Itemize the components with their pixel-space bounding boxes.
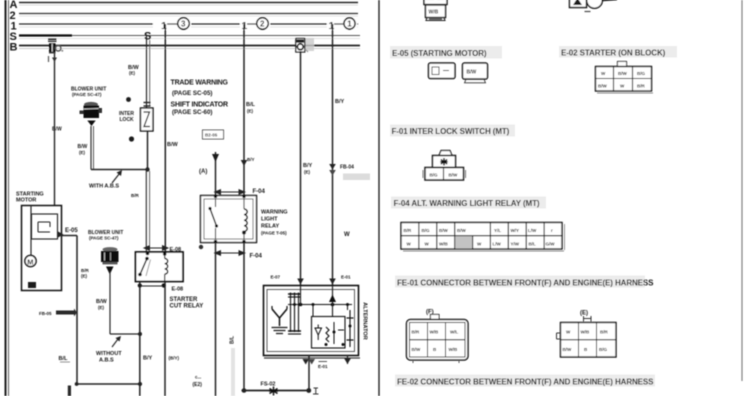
svg-text:B/Y: B/Y — [303, 163, 313, 169]
svg-text:E-08: E-08 — [172, 287, 184, 293]
connector pinout E-02 table — [596, 62, 654, 94]
svg-text:(E): (E) — [79, 150, 86, 155]
svg-text:1: 1 — [329, 20, 335, 32]
svg-text:W/B: W/B — [429, 10, 439, 16]
connector arrows below alternator — [303, 359, 329, 369]
svg-text:(PAGE T-05): (PAGE T-05) — [261, 231, 287, 236]
relay K2 warning light relay box — [201, 196, 257, 243]
wire S drop to interlock — [147, 36, 150, 108]
node junction S/blower — [145, 167, 149, 171]
svg-text:RELAY: RELAY — [261, 224, 279, 230]
svg-text:B: B — [10, 42, 18, 54]
connector pinout F side — [407, 310, 469, 364]
svg-text:(E): (E) — [304, 170, 311, 175]
svg-text:F-04: F-04 — [250, 254, 263, 260]
svg-text:B/Y: B/Y — [247, 157, 255, 162]
ground splice symbol — [269, 387, 278, 396]
svg-text:MOTOR: MOTOR — [16, 198, 36, 204]
starter cut relay name — [170, 297, 204, 310]
svg-text:A.B.S: A.B.S — [99, 358, 114, 364]
svg-text:S: S — [144, 31, 151, 43]
svg-text:FS-02: FS-02 — [261, 382, 276, 388]
connector arrows on wire 332 — [329, 164, 336, 176]
svg-text:WITHOUT: WITHOUT — [96, 351, 122, 357]
label B/L on 1-2 wire — [246, 102, 256, 114]
wire circled-B drop to alternator — [300, 51, 302, 286]
interlock top marks — [144, 103, 151, 107]
blower unit connector (upper) — [80, 102, 103, 126]
label B/W (E) lower — [96, 299, 108, 310]
connector pinout E-05 a — [429, 63, 456, 79]
wire horizontal ABS link y384 — [75, 382, 142, 386]
svg-text:(E): (E) — [580, 311, 588, 317]
page center divider — [378, 0, 380, 396]
starter motor pictorial figure — [570, 0, 618, 12]
svg-text:Y/L: Y/L — [494, 228, 501, 233]
connector FB-05 arrow — [39, 309, 77, 317]
interlock side dots — [126, 97, 134, 141]
svg-text:W: W — [344, 232, 350, 238]
svg-text:F-04: F-04 — [253, 189, 266, 195]
svg-text:F-04 ALT. WARNING LIGHT RELAY: F-04 ALT. WARNING LIGHT RELAY (MT) — [394, 199, 540, 208]
heading E-05 starting motor — [390, 46, 502, 59]
alternator internal bus — [288, 303, 352, 307]
blower unit label (lower) — [88, 230, 123, 241]
connector view E-05 top figure — [424, 0, 447, 21]
off-page stub — [68, 386, 71, 396]
heading FE-01 connector between harness — [395, 276, 654, 288]
svg-text:B/G: B/G — [599, 347, 608, 352]
label (E2) — [193, 375, 203, 389]
alternator right components — [313, 305, 354, 348]
svg-text:B2-05: B2-05 — [205, 133, 218, 138]
relay K1 starter cut relay box — [136, 252, 184, 282]
svg-text:B/R: B/R — [131, 193, 140, 198]
svg-text:SHIFT INDICATOR: SHIFT INDICATOR — [171, 102, 229, 109]
starting motor box E-05 — [22, 206, 62, 291]
svg-text:(PAGE SC-60): (PAGE SC-60) — [172, 109, 212, 116]
alternator box — [264, 286, 359, 356]
svg-text:B/G: B/G — [430, 173, 439, 178]
connector label E-07 alternator left — [271, 275, 304, 285]
svg-text:B/W: B/W — [467, 70, 477, 76]
interlock switch F-01 body — [141, 108, 154, 131]
bus wire A — [19, 3, 358, 6]
svg-text:F-01 INTER LOCK SWITCH (MT): F-01 INTER LOCK SWITCH (MT) — [392, 127, 510, 136]
svg-text:WARNING: WARNING — [261, 210, 288, 216]
wire F-04 left pin down to bottom — [215, 243, 217, 396]
F-04 pin dots — [214, 195, 246, 243]
svg-text:(PAGE SC-47): (PAGE SC-47) — [72, 92, 102, 97]
connector pinout E-05 b — [463, 63, 488, 83]
label B/Y (E) near wire 300 — [303, 163, 313, 175]
svg-text:(E): (E) — [129, 71, 136, 76]
F-04 connector arrows bottom — [199, 245, 246, 256]
wire relay bottom-left down — [139, 282, 141, 396]
wire 1-1 drop to alternator — [332, 24, 334, 286]
svg-text:E-05: E-05 — [65, 228, 78, 234]
node 1-2 junction label — [240, 18, 270, 32]
connector E-05 label — [58, 228, 78, 238]
svg-text:B/L: B/L — [529, 242, 537, 247]
wire horizontal junction — [91, 169, 148, 171]
connector pinout E side — [557, 311, 617, 358]
interlock label — [119, 111, 134, 123]
alternator regulator box — [312, 317, 346, 349]
svg-text:FB-05: FB-05 — [39, 311, 52, 316]
svg-text:B/R: B/R — [412, 330, 421, 335]
scan streak — [231, 348, 235, 396]
svg-text:FE-01 CONNECTOR BETWEEN FRONT(: FE-01 CONNECTOR BETWEEN FRONT(F) AND ENG… — [397, 279, 654, 288]
svg-text:B/W: B/W — [439, 228, 449, 233]
svg-text:E-02 STARTER (ON BLOCK): E-02 STARTER (ON BLOCK) — [561, 49, 666, 58]
svg-text:TRADE WARNING: TRADE WARNING — [171, 80, 229, 87]
label B/Y on wire 244 lower — [241, 157, 255, 166]
svg-text:1: 1 — [161, 20, 167, 32]
small boxed ref label — [203, 130, 224, 139]
svg-text:r: r — [551, 228, 553, 233]
svg-text:B/L: B/L — [230, 336, 236, 344]
svg-text:3: 3 — [181, 20, 186, 29]
svg-text:M: M — [27, 258, 33, 267]
alternator bottom stub right — [344, 355, 351, 364]
svg-text:(A): (A) — [199, 169, 207, 175]
svg-text:W/B: W/B — [430, 330, 439, 335]
wire 1-3 drop to starter cut relay — [164, 24, 166, 252]
blower unit label (upper) — [71, 87, 106, 98]
svg-text:B/L: B/L — [246, 102, 256, 108]
svg-text:W/B: W/B — [439, 242, 448, 247]
svg-text:L/W: L/W — [493, 242, 502, 247]
svg-text:c...: c... — [195, 375, 201, 380]
wire starting motor to down wire — [62, 235, 78, 237]
wire L inside alternator with up arrow — [329, 286, 336, 317]
svg-text:(PAGE SC-47): (PAGE SC-47) — [89, 236, 119, 241]
F-04 connector arrows top — [214, 189, 247, 195]
svg-text:E-05 (STARTING MOTOR): E-05 (STARTING MOTOR) — [392, 49, 487, 58]
svg-text:B/W: B/W — [457, 228, 467, 233]
connector pinout F-04 table — [401, 223, 565, 252]
with ABS arrow note — [89, 170, 122, 190]
svg-text:B/R: B/R — [637, 84, 646, 89]
bus wire B — [19, 46, 360, 49]
wire E-05 down — [76, 236, 78, 385]
svg-text:L/W: L/W — [528, 228, 537, 233]
bus wire 1 — [19, 24, 358, 27]
starter cut relay connector arrows top — [143, 245, 169, 251]
svg-text:W/B: W/B — [581, 330, 590, 335]
svg-text:B/R: B/R — [404, 228, 413, 233]
wire F-04 right pin down to ground — [243, 243, 245, 391]
svg-text:FB-04: FB-04 — [340, 165, 354, 171]
svg-text:B/W: B/W — [598, 84, 608, 89]
wire into F-04 with arrow — [212, 152, 219, 196]
node 1-1 junction label — [327, 18, 357, 32]
svg-text:(PAGE SC-05): (PAGE SC-05) — [172, 90, 212, 97]
svg-text:B/L: B/L — [59, 356, 69, 362]
svg-text:B/W: B/W — [412, 347, 422, 352]
svg-text:W/L: W/L — [450, 330, 458, 335]
wire alternator ground drop — [308, 355, 310, 391]
label B/R (E) — [81, 268, 90, 279]
svg-text:B/G: B/G — [422, 228, 431, 233]
svg-text:B/W: B/W — [52, 127, 62, 133]
svg-text:E-01: E-01 — [341, 275, 351, 280]
relay pin dots — [138, 252, 167, 288]
connector on bus B — [48, 39, 63, 53]
heading F-01 inter lock switch — [390, 125, 515, 137]
connector label FB-04 — [340, 165, 370, 181]
alternator stator windings — [272, 306, 288, 334]
svg-text:B/R: B/R — [81, 268, 90, 273]
svg-text:1: 1 — [347, 20, 352, 29]
svg-text:B/W: B/W — [167, 142, 179, 148]
svg-text:B/W: B/W — [449, 173, 459, 178]
node junction at 140,334 — [138, 332, 142, 336]
svg-text:(E): (E) — [247, 109, 254, 114]
heading FE-02 connector between harness — [395, 375, 655, 387]
page left border — [6, 0, 9, 396]
wire blower to junction — [91, 126, 94, 170]
svg-text:B/W: B/W — [563, 347, 573, 352]
heading E-02 starter — [559, 46, 677, 58]
node B tap connector — [296, 38, 314, 52]
svg-text:(B/Y): (B/Y) — [169, 356, 180, 361]
svg-text:CUT RELAY: CUT RELAY — [170, 304, 204, 310]
without ABS note — [96, 336, 122, 364]
starting motor label — [16, 192, 44, 204]
wire relay bottom-right down — [164, 282, 166, 396]
svg-text:ALTERNATOR: ALTERNATOR — [362, 302, 368, 340]
svg-text:E-01: E-01 — [318, 364, 328, 369]
svg-text:B/Y: B/Y — [143, 356, 153, 362]
svg-text:B/G: B/G — [637, 71, 646, 76]
ground wire FS-02 — [242, 388, 319, 394]
node 1-3 junction label — [153, 18, 191, 32]
svg-text:WITH A.B.S: WITH A.B.S — [89, 184, 119, 190]
label B/W mid — [78, 144, 88, 155]
wire junction to starter cut relay — [146, 171, 149, 252]
label B/W near S wire — [128, 65, 140, 76]
heading F-04 alt warning light relay — [391, 197, 546, 209]
svg-text:2: 2 — [260, 20, 265, 29]
svg-text:(E2): (E2) — [193, 382, 203, 388]
label B/L near E-05 wire — [59, 356, 71, 362]
wire 1-2 drop to F-04 — [243, 24, 245, 196]
svg-text:FE-02 CONNECTOR BETWEEN FRONT(: FE-02 CONNECTOR BETWEEN FRONT(F) AND ENG… — [397, 378, 654, 387]
svg-text:G/W: G/W — [546, 242, 556, 247]
wire B-connector to starting motor — [49, 54, 58, 206]
starting motor M circle — [25, 255, 36, 266]
svg-text:Y/W: Y/W — [511, 242, 520, 247]
svg-text:W/B: W/B — [449, 347, 458, 352]
alternator bottom shadow line — [264, 357, 360, 359]
svg-text:B/W: B/W — [618, 71, 628, 76]
wire B inside alternator — [300, 286, 302, 305]
wire interlock to junction — [147, 131, 149, 171]
svg-text:W/Y: W/Y — [511, 228, 520, 233]
page reference text block sc — [171, 80, 229, 117]
alternator diode bridge — [288, 293, 301, 335]
svg-text:STARTER: STARTER — [170, 297, 199, 303]
warning light relay name — [261, 210, 288, 236]
wire lower blower down — [110, 271, 140, 334]
connector pinout F-01 — [423, 151, 466, 181]
bus wire S — [19, 36, 360, 39]
bus wire 2 — [19, 14, 358, 17]
svg-text:(E): (E) — [98, 305, 105, 310]
svg-text:LIGHT: LIGHT — [261, 217, 278, 223]
svg-text:(E): (E) — [81, 274, 88, 279]
page right border — [741, 0, 743, 381]
blower unit connector (lower) — [101, 247, 119, 274]
svg-text:E-08: E-08 — [170, 247, 182, 253]
svg-text:LOCK: LOCK — [120, 117, 135, 123]
connector label E-01 alternator right — [329, 275, 351, 285]
svg-text:E-07: E-07 — [271, 275, 281, 280]
svg-text:B/R: B/R — [600, 330, 609, 335]
svg-text:B/Y: B/Y — [335, 99, 345, 105]
